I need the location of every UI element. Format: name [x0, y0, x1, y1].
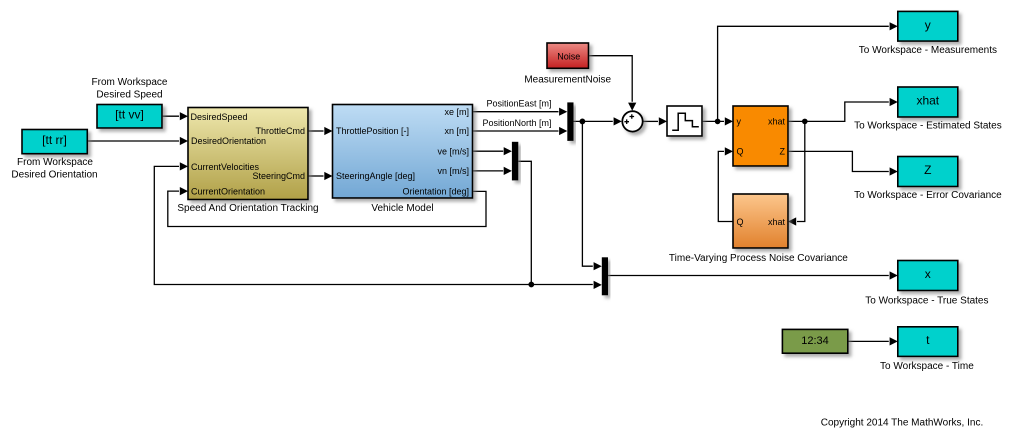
arrowhead into Mux3 in1	[594, 262, 602, 270]
svg-text:[tt vv]: [tt vv]	[115, 108, 144, 122]
wire ve to Mux2 in1	[473, 150, 504, 152]
wire Clock to t workspace	[848, 340, 889, 342]
svg-text:Desired Speed: Desired Speed	[96, 90, 162, 101]
mux Mux3	[602, 257, 608, 295]
arrowhead into y workspace	[890, 22, 898, 30]
svg-text:Orientation [deg]: Orientation [deg]	[402, 187, 469, 197]
arrowhead into CurrentVelocities	[180, 162, 188, 170]
arrowhead into t workspace	[890, 337, 898, 345]
mux Mux1	[567, 102, 573, 140]
svg-text:ThrottleCmd: ThrottleCmd	[255, 126, 305, 136]
wire ThrottleCmd to ThrottlePosition	[308, 130, 324, 132]
svg-text:xe [m]: xe [m]	[444, 107, 469, 117]
block To Workspace t	[898, 327, 958, 357]
svg-text:xhat: xhat	[768, 116, 786, 126]
block To Workspace x	[898, 261, 958, 291]
arrowhead into DesiredOrientation	[180, 137, 188, 145]
arrowhead into ZOH	[659, 117, 667, 125]
arrowhead Mux1 in1	[559, 108, 567, 116]
svg-text:12:34: 12:34	[801, 335, 829, 347]
junction dot y branch	[715, 119, 721, 125]
label From Workspace Desired Speed	[92, 77, 168, 101]
arrowhead Mux1 in2	[559, 127, 567, 135]
block Digital Clock	[782, 329, 847, 353]
svg-text:Z: Z	[780, 146, 786, 156]
svg-text:Speed And Orientation Tracking: Speed And Orientation Tracking	[177, 203, 318, 214]
zero-order hold icon	[672, 113, 699, 130]
svg-text:Desired Orientation: Desired Orientation	[11, 170, 97, 181]
wire Kalman xhat out to xhat workspace	[788, 102, 889, 121]
wire Mux3 out to x workspace	[608, 275, 889, 277]
svg-text:To Workspace - Measurements: To Workspace - Measurements	[859, 45, 997, 56]
svg-text:CurrentVelocities: CurrentVelocities	[191, 162, 260, 172]
wire from [tt rr] to DesiredOrientation	[87, 140, 179, 142]
svg-text:PositionEast [m]: PositionEast [m]	[486, 99, 551, 109]
svg-text:vn [m/s]: vn [m/s]	[437, 166, 469, 176]
svg-text:CurrentOrientation: CurrentOrientation	[191, 186, 265, 196]
svg-text:SteeringAngle [deg]: SteeringAngle [deg]	[336, 171, 415, 181]
block Noise	[547, 43, 589, 68]
wire from [tt vv] to DesiredSpeed	[162, 115, 179, 117]
svg-text:xn [m]: xn [m]	[444, 126, 469, 136]
block From Workspace Desired Speed [tt vv]	[97, 105, 162, 129]
arrowhead into Mux3 in2	[594, 281, 602, 289]
arrowhead Mux2 in1	[504, 147, 512, 155]
svg-text:DesiredOrientation: DesiredOrientation	[191, 136, 266, 146]
wire covariance Q out to Kalman Q	[718, 151, 733, 221]
svg-text:y: y	[925, 18, 931, 32]
sum sign top input	[630, 114, 635, 119]
arrowhead into SteeringAngle	[324, 172, 332, 180]
arrowhead into covariance xhat (pointing left)	[788, 217, 796, 225]
mux Mux2	[512, 142, 518, 181]
block To Workspace y	[898, 11, 958, 41]
svg-text:SteeringCmd: SteeringCmd	[252, 171, 305, 181]
svg-text:From Workspace: From Workspace	[92, 77, 168, 88]
wire xe to Mux1 in1	[473, 111, 559, 113]
svg-text:MeasurementNoise: MeasurementNoise	[524, 75, 611, 86]
svg-text:To Workspace - True States: To Workspace - True States	[865, 296, 988, 307]
label From Workspace Desired Orientation	[11, 157, 97, 181]
block From Workspace Desired Orientation [tt rr]	[22, 130, 87, 154]
wire xn to Mux1 in2	[473, 130, 559, 132]
svg-text:ThrottlePosition [-]: ThrottlePosition [-]	[336, 126, 409, 136]
wire Mux1 out to Sum with branch down to Mux3 in1	[574, 121, 613, 266]
svg-text:Q: Q	[737, 146, 744, 156]
svg-text:To Workspace - Estimated State: To Workspace - Estimated States	[854, 121, 1002, 132]
arrowhead into DesiredSpeed	[180, 112, 188, 120]
block To Workspace xhat	[898, 87, 958, 117]
block To Workspace Z	[898, 157, 958, 187]
svg-text:Q: Q	[737, 217, 744, 227]
junction dot measurements branch	[580, 119, 586, 125]
svg-text:To Workspace - Error Covarianc: To Workspace - Error Covariance	[854, 190, 1002, 201]
block Vehicle Model	[333, 105, 473, 199]
svg-text:Copyright 2014 The MathWorks,: Copyright 2014 The MathWorks, Inc.	[821, 418, 984, 429]
block Speed And Orientation Tracking	[188, 108, 308, 200]
arrowhead into Z workspace	[890, 167, 898, 175]
arrowhead Mux2 in2	[504, 167, 512, 175]
arrowhead into Sum left	[614, 117, 622, 125]
svg-text:ve [m/s]: ve [m/s]	[437, 147, 469, 157]
svg-text:Time-Varying Process Noise Cov: Time-Varying Process Noise Covariance	[669, 253, 848, 264]
svg-text:From Workspace: From Workspace	[17, 157, 93, 168]
wire Kalman Z out to Z workspace	[788, 151, 889, 171]
wire Sum out to ZOH	[643, 120, 658, 122]
wire xhat branch down to covariance block	[797, 121, 805, 221]
svg-text:To Workspace - Time: To Workspace - Time	[880, 361, 974, 372]
block Kalman Filter	[733, 106, 788, 166]
svg-text:y: y	[737, 116, 742, 126]
arrowhead into CurrentOrientation	[180, 187, 188, 195]
wire Mux2 out down to true-states bus and left to CurrentVelocities	[154, 161, 593, 284]
wire SteeringCmd to SteeringAngle	[308, 175, 324, 177]
svg-text:Noise: Noise	[557, 51, 580, 61]
block Time-Varying Process Noise Covariance	[733, 194, 788, 248]
wire vn to Mux2 in2	[473, 170, 504, 172]
svg-text:[tt rr]: [tt rr]	[42, 133, 67, 147]
svg-text:xhat: xhat	[916, 93, 939, 107]
svg-text:x: x	[925, 267, 931, 281]
wire Noise to Sum top	[589, 56, 633, 102]
arrowhead into Kalman Q	[725, 147, 733, 155]
junction dot xhat branch	[802, 119, 808, 125]
arrowhead into Kalman y	[725, 117, 733, 125]
svg-text:DesiredSpeed: DesiredSpeed	[191, 112, 248, 122]
junction dot velocities bus	[528, 282, 534, 288]
wire ZOH out to Kalman y with branch up to y workspace	[702, 26, 889, 121]
arrowhead into Sum top	[628, 103, 636, 111]
svg-text:Z: Z	[924, 163, 931, 177]
sum block Add	[622, 111, 642, 131]
sum sign left input	[624, 119, 629, 124]
svg-text:Vehicle Model: Vehicle Model	[371, 203, 433, 214]
arrowhead into xhat workspace	[890, 98, 898, 106]
block Zero-Order Hold	[667, 106, 702, 136]
svg-text:PositionNorth [m]: PositionNorth [m]	[482, 118, 551, 128]
arrowhead into ThrottlePosition	[324, 127, 332, 135]
svg-text:xhat: xhat	[768, 217, 786, 227]
wire Orientation feedback to CurrentOrientation	[168, 191, 486, 226]
arrowhead into x workspace	[890, 271, 898, 279]
